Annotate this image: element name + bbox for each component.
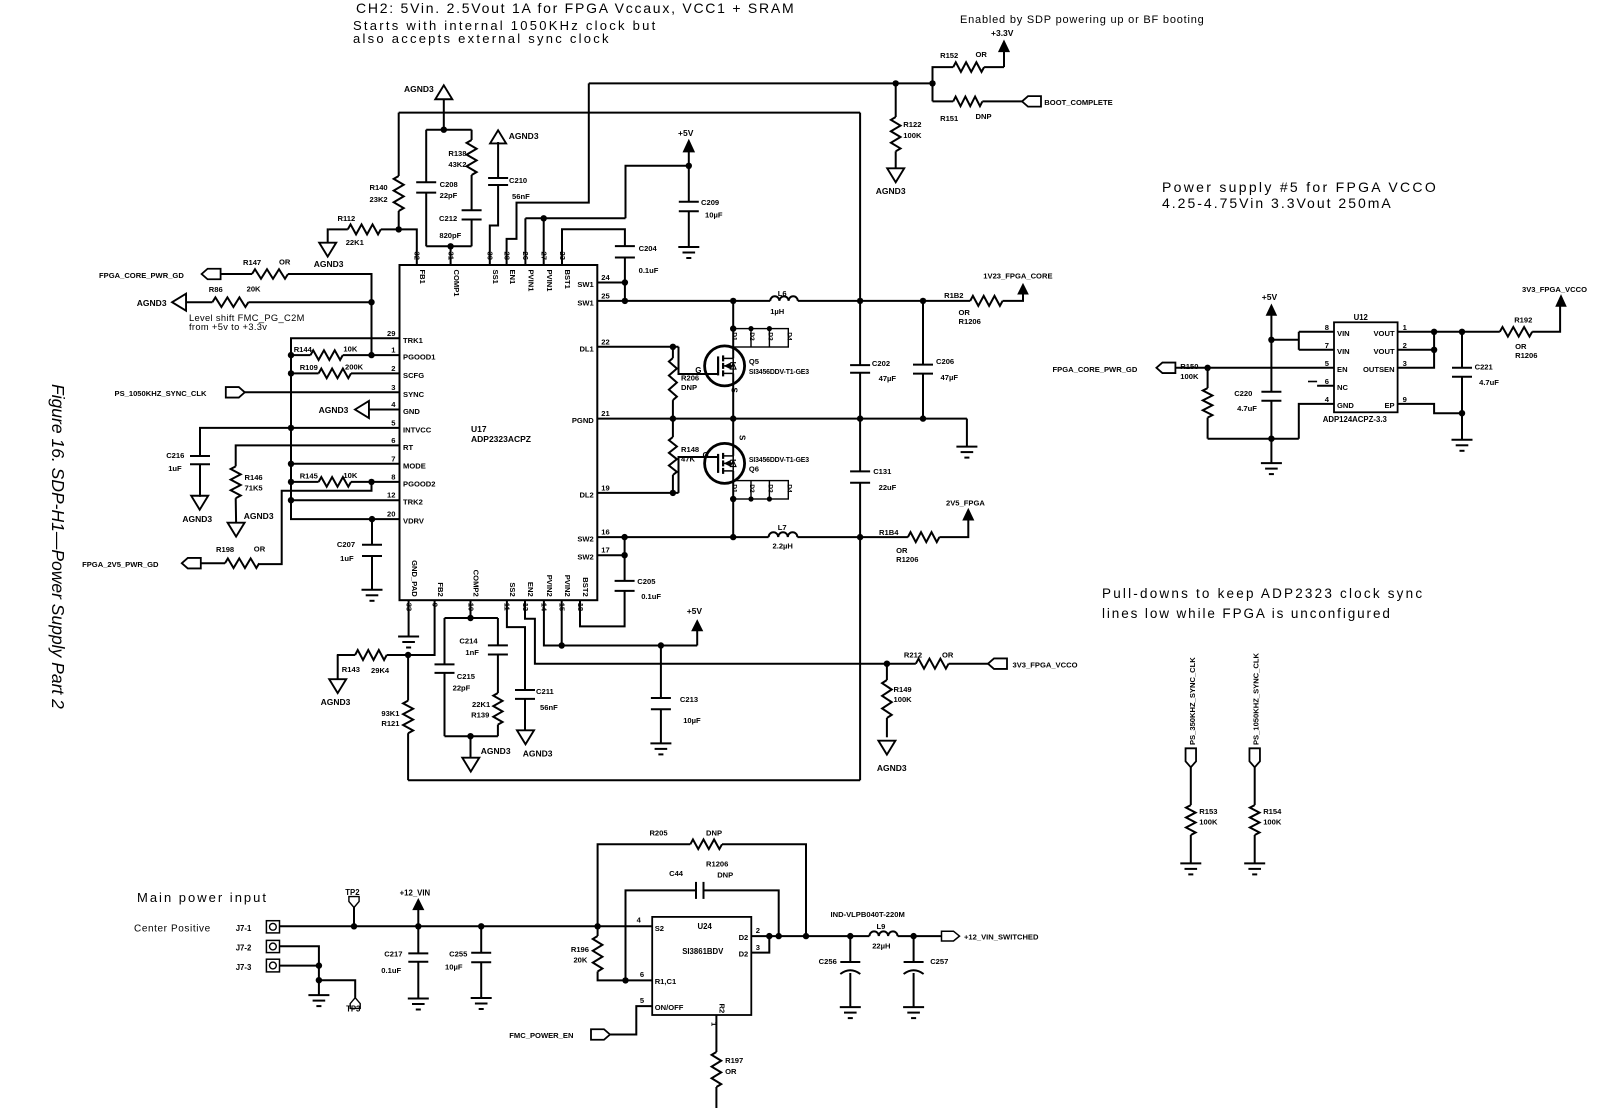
svg-text:SCFG: SCFG <box>403 371 424 380</box>
ground at PGND <box>956 446 977 448</box>
wire EN <box>1175 367 1334 369</box>
svg-text:C216: C216 <box>166 451 184 460</box>
svg-text:C257: C257 <box>930 957 948 966</box>
node C255 <box>478 923 484 929</box>
ground at C256 <box>840 1006 861 1008</box>
svg-text:R196: R196 <box>571 945 589 954</box>
svg-text:C255: C255 <box>449 950 468 959</box>
svg-text:C220: C220 <box>1234 389 1252 398</box>
svg-text:2.2µH: 2.2µH <box>773 542 793 551</box>
svg-text:R150: R150 <box>1180 362 1198 371</box>
node C206 bottom <box>920 415 926 421</box>
wire EP <box>1398 404 1462 413</box>
svg-text:MODE: MODE <box>403 461 426 470</box>
svg-text:R143: R143 <box>342 665 360 674</box>
node COMP2 box top <box>467 615 473 621</box>
capacitor C216 1uF <box>190 455 210 457</box>
svg-text:OR: OR <box>942 651 954 660</box>
svg-text:9: 9 <box>1403 395 1407 404</box>
ground at C217 <box>408 998 429 1000</box>
svg-text:Q6: Q6 <box>749 465 759 474</box>
wire box to AGND3 <box>470 736 472 758</box>
wire box bottom to COMP1 pin <box>450 246 452 265</box>
svg-text:4: 4 <box>391 400 396 409</box>
wire INTVCC to C216 <box>200 428 291 456</box>
wire GND_PAD to ground <box>408 600 410 636</box>
svg-text:AGND3: AGND3 <box>314 259 344 269</box>
svg-text:J7-3: J7-3 <box>236 963 252 972</box>
capacitor C204 0.1uF <box>615 245 635 247</box>
wire PGOOD2 pin <box>372 481 400 483</box>
wire C213 to ground <box>660 709 662 743</box>
node PVIN2 15 <box>559 642 565 648</box>
wire L9 to tag <box>898 935 942 937</box>
svg-text:R154: R154 <box>1263 807 1282 816</box>
node comp box bottom <box>467 733 473 739</box>
node TP3 branch <box>316 977 322 983</box>
wire C220 bottom <box>1270 401 1272 439</box>
svg-text:J7-2: J7-2 <box>236 944 252 953</box>
svg-text:4: 4 <box>637 916 642 925</box>
wire TRK1 <box>291 338 400 519</box>
svg-text:L7: L7 <box>778 523 787 532</box>
wire OUTSEN <box>1398 350 1435 368</box>
svg-text:3: 3 <box>756 943 760 952</box>
svg-text:R144: R144 <box>294 345 313 354</box>
svg-text:2: 2 <box>391 364 395 373</box>
svg-text:R151: R151 <box>940 114 959 123</box>
svg-text:4.7uF: 4.7uF <box>1479 378 1499 387</box>
wire R205 feedback <box>598 844 691 926</box>
svg-text:AGND3: AGND3 <box>404 84 434 94</box>
svg-text:VIN: VIN <box>1337 347 1350 356</box>
node Q6 drain bottom <box>730 534 736 540</box>
capacitor C214 1nF <box>488 644 508 646</box>
resistor R154 100K <box>1250 805 1260 835</box>
svg-text:OR: OR <box>254 545 266 554</box>
wire FB2 sense bottom <box>408 779 860 781</box>
svg-text:4: 4 <box>1325 395 1330 404</box>
svg-text:100K: 100K <box>1199 818 1218 827</box>
svg-text:OUTSEN: OUTSEN <box>1363 365 1395 374</box>
compensation box C215 C214 R139 <box>445 617 498 619</box>
svg-text:from +5v to +3.3v: from +5v to +3.3v <box>189 322 267 332</box>
svg-text:3: 3 <box>391 383 395 392</box>
wire SW1 pin24 <box>597 282 625 284</box>
svg-text:AGND3: AGND3 <box>481 746 511 756</box>
svg-text:Main power input: Main power input <box>137 890 268 905</box>
wire PVIN1 rail <box>524 218 526 265</box>
svg-text:BST2: BST2 <box>581 577 590 596</box>
svg-text:Center Positive: Center Positive <box>134 924 211 935</box>
svg-text:AGND3: AGND3 <box>182 514 212 524</box>
node SW2 17 <box>621 552 627 558</box>
transistor Q6 SI3456DDV-T1-GE3 <box>705 443 745 483</box>
capacitor C217 0.1uF <box>417 926 419 953</box>
svg-text:R1206: R1206 <box>1515 351 1537 360</box>
wire TP3 <box>319 980 355 998</box>
wire R184 to 2V5 arrow <box>939 520 968 537</box>
svg-text:56nF: 56nF <box>512 192 530 201</box>
node J7-3 <box>316 962 322 968</box>
svg-text:C215: C215 <box>457 672 476 681</box>
svg-text:FB1: FB1 <box>418 270 427 285</box>
svg-text:R148: R148 <box>681 445 699 454</box>
wire C44 branch <box>626 890 697 980</box>
svg-text:Pull-downs to keep ADP2323 clo: Pull-downs to keep ADP2323 clock sync <box>1102 586 1424 601</box>
IC U17 ADP2323ACPZ body <box>400 265 598 600</box>
ground at J7 <box>308 994 329 996</box>
wire AGND3 to C210 <box>497 142 499 178</box>
wire 2V5 sense vertical <box>859 537 861 780</box>
wire C211 to AGND3 <box>524 699 526 731</box>
svg-text:AGND3: AGND3 <box>137 298 167 308</box>
svg-text:0.1uF: 0.1uF <box>639 266 659 275</box>
wire PVIN2 to +5V rail <box>544 600 697 645</box>
svg-text:1uF: 1uF <box>168 464 182 473</box>
resistor R143 29K4 <box>337 654 355 656</box>
svg-text:G: G <box>703 451 709 460</box>
ground at C207 <box>362 589 383 591</box>
capacitor C215 22pF <box>435 663 455 665</box>
svg-text:PS_350KHZ_SYNC_CLK: PS_350KHZ_SYNC_CLK <box>1188 657 1197 745</box>
svg-text:SYNC: SYNC <box>403 390 425 399</box>
svg-text:SW1: SW1 <box>577 298 594 307</box>
wire Q5 drain <box>732 301 734 359</box>
svg-text:0.1uF: 0.1uF <box>381 966 401 975</box>
svg-text:R1B4: R1B4 <box>879 528 899 537</box>
svg-text:EN: EN <box>1337 365 1348 374</box>
node C221 top <box>1459 329 1465 335</box>
capacitor C257 <box>913 936 915 962</box>
svg-text:AGND3: AGND3 <box>321 697 351 707</box>
node VDRV C207 <box>369 516 375 522</box>
wire R147 to PGOOD1 node <box>288 274 372 302</box>
svg-text:56nF: 56nF <box>540 703 558 712</box>
ground AGND3 at R112 <box>319 243 336 257</box>
svg-text:22: 22 <box>601 337 609 346</box>
ground AGND3 at comp box <box>462 758 479 772</box>
wire PGND to ground <box>966 419 968 447</box>
svg-text:29: 29 <box>387 329 395 338</box>
resistor R122 100K <box>895 83 897 117</box>
ground at C213 <box>650 742 671 744</box>
svg-text:3V3_FPGA_VCCO: 3V3_FPGA_VCCO <box>1013 661 1078 670</box>
svg-text:EP: EP <box>1384 401 1394 410</box>
compensation box C208 R138 C212 <box>426 129 471 131</box>
svg-text:DNP: DNP <box>717 871 733 880</box>
wire BST1 to C204 <box>562 229 625 265</box>
wire C217 to ground <box>417 962 419 999</box>
node pin3 <box>766 933 772 939</box>
capacitor C207 1uF <box>371 519 373 545</box>
wire +5V to VIN pins <box>1271 339 1298 341</box>
svg-text:5: 5 <box>640 996 645 1005</box>
svg-text:D2: D2 <box>748 484 755 493</box>
capacitor C256 <box>849 936 851 962</box>
svg-text:FB2: FB2 <box>436 582 445 596</box>
wire tag to R153 <box>1190 767 1192 805</box>
capacitor C208 22pF <box>416 181 436 183</box>
ground at C257 <box>903 1006 924 1008</box>
svg-text:10µF: 10µF <box>445 963 463 972</box>
svg-text:PVIN1: PVIN1 <box>527 270 536 293</box>
wire C210 to SS1 pin <box>490 185 498 265</box>
svg-text:DNP: DNP <box>681 383 697 392</box>
node FB1 divider <box>396 226 402 232</box>
svg-text:25: 25 <box>601 291 610 300</box>
svg-text:FPGA_2V5_PWR_GD: FPGA_2V5_PWR_GD <box>82 560 159 569</box>
node PGOOD1 <box>368 352 374 358</box>
svg-text:lines low while FPGA is unconf: lines low while FPGA is unconfigured <box>1102 606 1392 621</box>
ground AGND3 at R122 <box>887 168 904 182</box>
svg-text:FPGA_CORE_PWR_GD: FPGA_CORE_PWR_GD <box>99 271 184 280</box>
svg-text:OR: OR <box>976 50 988 59</box>
node PGND at C202 <box>857 415 863 421</box>
svg-text:6: 6 <box>640 970 644 979</box>
capacitor C213 10uF <box>660 646 662 699</box>
wire R150 to gnd rail <box>1207 418 1209 439</box>
node R144 left <box>288 352 294 358</box>
wire to ground sym <box>1270 439 1272 463</box>
svg-text:10µF: 10µF <box>705 211 723 220</box>
svg-text:20K: 20K <box>247 285 261 294</box>
svg-text:U17: U17 <box>471 424 487 434</box>
ground at GND_PAD <box>398 636 419 638</box>
tag +12_VIN_SWITCHED <box>942 931 960 941</box>
svg-text:U24: U24 <box>698 922 713 931</box>
svg-text:D1: D1 <box>730 484 737 493</box>
ground AGND3 at R146 <box>228 523 245 537</box>
node VOUT jog <box>1431 329 1437 335</box>
wire R140 top vertical <box>398 113 400 176</box>
wire GND pin <box>369 409 400 411</box>
svg-text:200K: 200K <box>345 363 364 372</box>
node TRK2 <box>288 497 294 503</box>
svg-text:D2: D2 <box>739 933 749 942</box>
capacitor C209 10uF <box>679 201 699 203</box>
svg-text:D3: D3 <box>767 332 774 341</box>
svg-text:EN1: EN1 <box>508 270 517 286</box>
svg-text:AGND3: AGND3 <box>877 763 907 773</box>
svg-text:22K1: 22K1 <box>472 700 491 709</box>
svg-text:29K4: 29K4 <box>371 666 390 675</box>
wire feedback top bus y=112.6 <box>399 112 860 114</box>
wire C205 to BST2 <box>580 591 625 627</box>
svg-text:PVIN2: PVIN2 <box>563 575 572 597</box>
wire FB2 to divider <box>408 600 435 655</box>
svg-text:4.7uF: 4.7uF <box>1237 404 1257 413</box>
svg-text:16: 16 <box>601 528 609 537</box>
svg-text:DL2: DL2 <box>579 490 593 499</box>
wire Q5 source <box>732 373 734 418</box>
wire R122 to AGND3 <box>895 151 897 168</box>
node FB2 divider <box>405 652 411 658</box>
ground AGND3 at C210 <box>490 130 506 143</box>
wire C44 to output <box>704 890 779 936</box>
ground AGND3 at R143 <box>329 679 346 693</box>
svg-text:C212: C212 <box>439 214 457 223</box>
svg-text:100K: 100K <box>903 131 922 140</box>
wire GND pin to rail <box>1299 404 1334 439</box>
svg-text:3: 3 <box>1403 359 1407 368</box>
node R148 bottom <box>670 490 676 496</box>
capacitor C221 4.7uF <box>1461 332 1463 368</box>
svg-text:2: 2 <box>756 926 760 935</box>
wire tag to R154 <box>1254 767 1256 805</box>
svg-text:47µF: 47µF <box>879 374 897 383</box>
svg-text:R205: R205 <box>649 829 668 838</box>
svg-text:EN2: EN2 <box>526 582 535 597</box>
svg-text:R138: R138 <box>448 149 466 158</box>
svg-text:C209: C209 <box>701 198 719 207</box>
svg-text:PGOOD2: PGOOD2 <box>403 479 436 488</box>
svg-text:10K: 10K <box>343 471 357 480</box>
wire pin1 to R197 <box>715 1015 717 1052</box>
wire PGOOD2 to 2V5 PWR GD <box>259 482 371 564</box>
capacitor C44 DNP <box>695 882 697 899</box>
capacitor C206 47uF <box>922 301 924 365</box>
wire SW2 17 tie <box>597 554 624 556</box>
node R109 left <box>288 370 294 376</box>
wire C131 to SW2 node <box>859 483 861 537</box>
ground at C221 <box>1452 439 1473 441</box>
node SW1 24 <box>622 279 628 285</box>
svg-text:C208: C208 <box>440 180 458 189</box>
wire VOUT node <box>1398 331 1500 333</box>
resistor R139 22K1 <box>493 693 502 725</box>
wire FMC_POWER_EN to pin5 <box>610 1006 652 1034</box>
wire pin2 output <box>751 935 850 937</box>
svg-text:COMP2: COMP2 <box>472 570 481 597</box>
svg-text:+12_VIN: +12_VIN <box>400 889 431 898</box>
resistor R121 93K1 <box>407 655 409 701</box>
svg-text:+5V: +5V <box>687 606 703 616</box>
svg-text:Q5: Q5 <box>749 357 760 366</box>
wire Q6 source <box>732 419 734 456</box>
svg-text:SI3456DDV-T1-GE3: SI3456DDV-T1-GE3 <box>749 457 809 464</box>
svg-text:1uF: 1uF <box>340 554 354 563</box>
capacitor C202 47uF <box>850 364 870 366</box>
wire R205 to output <box>722 844 806 936</box>
svg-text:OR: OR <box>725 1067 737 1076</box>
svg-text:R1206: R1206 <box>706 860 728 869</box>
wire J7-3 <box>280 965 319 967</box>
node C44 out <box>776 933 782 939</box>
svg-text:D3: D3 <box>767 484 774 493</box>
svg-text:OR: OR <box>1515 342 1527 351</box>
svg-text:1: 1 <box>391 346 396 355</box>
svg-text:COMP1: COMP1 <box>452 270 461 298</box>
wire R86 to PGOOD1 node <box>248 301 371 303</box>
svg-text:SI3861BDV: SI3861BDV <box>682 947 724 956</box>
svg-text:GND_PAD: GND_PAD <box>410 560 419 597</box>
svg-text:24: 24 <box>601 273 610 282</box>
svg-text:PVIN1: PVIN1 <box>545 270 554 293</box>
node 3V3 R149 <box>884 661 890 667</box>
svg-text:+5V: +5V <box>1262 292 1278 302</box>
svg-text:R139: R139 <box>471 711 489 720</box>
svg-text:R121: R121 <box>381 719 400 728</box>
svg-text:OR: OR <box>959 308 971 317</box>
wire C204 to SW1 <box>624 258 626 301</box>
wire +5V to PVIN1 <box>626 166 689 219</box>
svg-text:TRK2: TRK2 <box>403 498 423 507</box>
svg-text:6: 6 <box>391 436 395 445</box>
node EP C221 <box>1459 410 1465 416</box>
wire node to PGOOD1 <box>371 302 373 355</box>
node C213 top <box>658 642 664 648</box>
node C256 <box>847 933 853 939</box>
wire R197 down <box>715 1087 717 1108</box>
svg-text:INTVCC: INTVCC <box>403 425 432 434</box>
wire R152 to node <box>933 67 954 101</box>
svg-text:6: 6 <box>1325 377 1329 386</box>
svg-text:R2: R2 <box>718 1004 727 1014</box>
resistor R148 47K <box>669 437 677 475</box>
svg-text:1V23_FPGA_CORE: 1V23_FPGA_CORE <box>983 272 1052 281</box>
wire L7 to 2V5 node <box>797 536 908 538</box>
svg-text:R145: R145 <box>300 472 319 481</box>
node +12_VIN <box>415 923 421 929</box>
svg-text:R1,C1: R1,C1 <box>655 977 677 986</box>
node Q5 source <box>730 415 736 421</box>
wire TRK2 pin <box>291 499 400 501</box>
svg-text:R1B2: R1B2 <box>944 291 963 300</box>
svg-text:SI3456DDV-T1-GE3: SI3456DDV-T1-GE3 <box>749 369 809 376</box>
svg-text:23K2: 23K2 <box>370 195 388 204</box>
svg-text:S: S <box>738 435 747 441</box>
wire J7-2 to gnd <box>280 946 319 995</box>
svg-text:10K: 10K <box>343 345 357 354</box>
wire R121 to 2V5 sense <box>407 733 409 780</box>
IC U24 SI3861BDV body <box>652 917 751 1015</box>
ground AGND3 at C216 <box>191 496 208 510</box>
tag 3V3_FPGA_VCCO <box>988 658 1007 669</box>
svg-text:AGND3: AGND3 <box>523 749 553 759</box>
resistor R149 100K <box>882 680 892 718</box>
svg-text:RT: RT <box>403 443 413 452</box>
svg-text:C210: C210 <box>509 176 527 185</box>
svg-text:ON/OFF: ON/OFF <box>655 1003 684 1012</box>
node R196 R205 <box>594 923 600 929</box>
svg-text:2: 2 <box>1403 341 1407 350</box>
svg-text:22pF: 22pF <box>453 684 471 693</box>
node +5V VIN <box>1268 337 1274 343</box>
svg-text:R146: R146 <box>245 473 263 482</box>
svg-text:71K5: 71K5 <box>245 484 264 493</box>
wire RT to R146 <box>236 445 400 466</box>
svg-text:AGND3: AGND3 <box>876 186 906 196</box>
svg-text:J7-1: J7-1 <box>236 924 252 933</box>
resistor R146 71K5 <box>231 466 241 498</box>
wire C257 ground <box>913 973 915 1007</box>
wire COMP2 to comp box <box>470 600 472 618</box>
svg-text:R147: R147 <box>243 258 261 267</box>
svg-text:19: 19 <box>601 483 609 492</box>
svg-text:R197: R197 <box>725 1056 743 1065</box>
svg-text:20K: 20K <box>573 956 587 965</box>
svg-text:FMC_POWER_EN: FMC_POWER_EN <box>509 1031 573 1040</box>
resistor R197 OR <box>712 1052 722 1087</box>
node COMP1 at box bottom <box>447 243 453 249</box>
svg-text:93K1: 93K1 <box>381 709 400 718</box>
resistor R206 DNP <box>669 358 677 400</box>
node C257 <box>910 933 916 939</box>
svg-text:PVIN2: PVIN2 <box>545 575 554 597</box>
svg-text:PS_1050KHZ_SYNC_CLK: PS_1050KHZ_SYNC_CLK <box>115 389 208 398</box>
svg-text:43K2: 43K2 <box>448 160 466 169</box>
